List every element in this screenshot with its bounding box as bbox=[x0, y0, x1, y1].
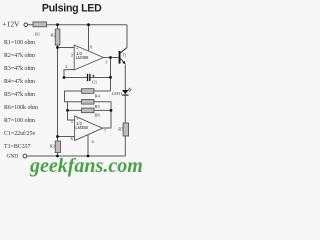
svg-text:LM358: LM358 bbox=[75, 125, 88, 130]
svg-text:R7=100 ohm: R7=100 ohm bbox=[4, 118, 35, 124]
svg-text:C1=22uf/25v: C1=22uf/25v bbox=[4, 130, 36, 137]
svg-text:+12V: +12V bbox=[2, 20, 20, 29]
svg-text:LM358: LM358 bbox=[76, 55, 89, 60]
svg-text:R4=47k ohm: R4=47k ohm bbox=[4, 79, 35, 85]
svg-text:2: 2 bbox=[65, 64, 67, 69]
svg-text:R1: R1 bbox=[35, 31, 40, 36]
svg-text:R6=100k ohm: R6=100k ohm bbox=[4, 105, 38, 111]
svg-text:R5=47k ohm: R5=47k ohm bbox=[4, 92, 35, 98]
svg-text:R1=100 ohm: R1=100 ohm bbox=[4, 40, 35, 46]
svg-text:R6: R6 bbox=[95, 112, 101, 117]
svg-text:R2=47k ohm: R2=47k ohm bbox=[4, 53, 35, 59]
svg-text:R2: R2 bbox=[51, 32, 56, 37]
svg-text:R3=47k ohm: R3=47k ohm bbox=[4, 66, 35, 72]
svg-text:R5: R5 bbox=[95, 104, 101, 109]
svg-text:R7: R7 bbox=[118, 127, 124, 132]
svg-text:geekfans.com: geekfans.com bbox=[29, 155, 143, 177]
svg-text:R3: R3 bbox=[50, 144, 56, 149]
svg-text:LED1: LED1 bbox=[112, 91, 123, 96]
svg-text:GND: GND bbox=[7, 153, 19, 159]
svg-text:R4: R4 bbox=[95, 94, 101, 99]
svg-text:1: 1 bbox=[105, 59, 107, 64]
svg-text:C1: C1 bbox=[92, 79, 97, 84]
svg-text:T1: T1 bbox=[122, 53, 127, 58]
svg-text:Pulsing LED: Pulsing LED bbox=[42, 3, 102, 15]
svg-text:T1=BC337: T1=BC337 bbox=[4, 144, 31, 150]
